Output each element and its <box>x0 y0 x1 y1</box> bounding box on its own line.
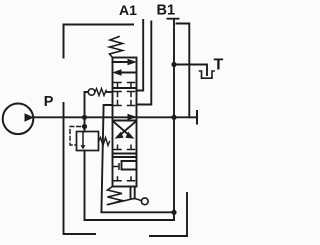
svg-text:T: T <box>214 56 224 73</box>
svg-text:B1: B1 <box>157 3 176 19</box>
svg-text:P: P <box>44 94 54 110</box>
svg-text:A1: A1 <box>119 2 137 18</box>
